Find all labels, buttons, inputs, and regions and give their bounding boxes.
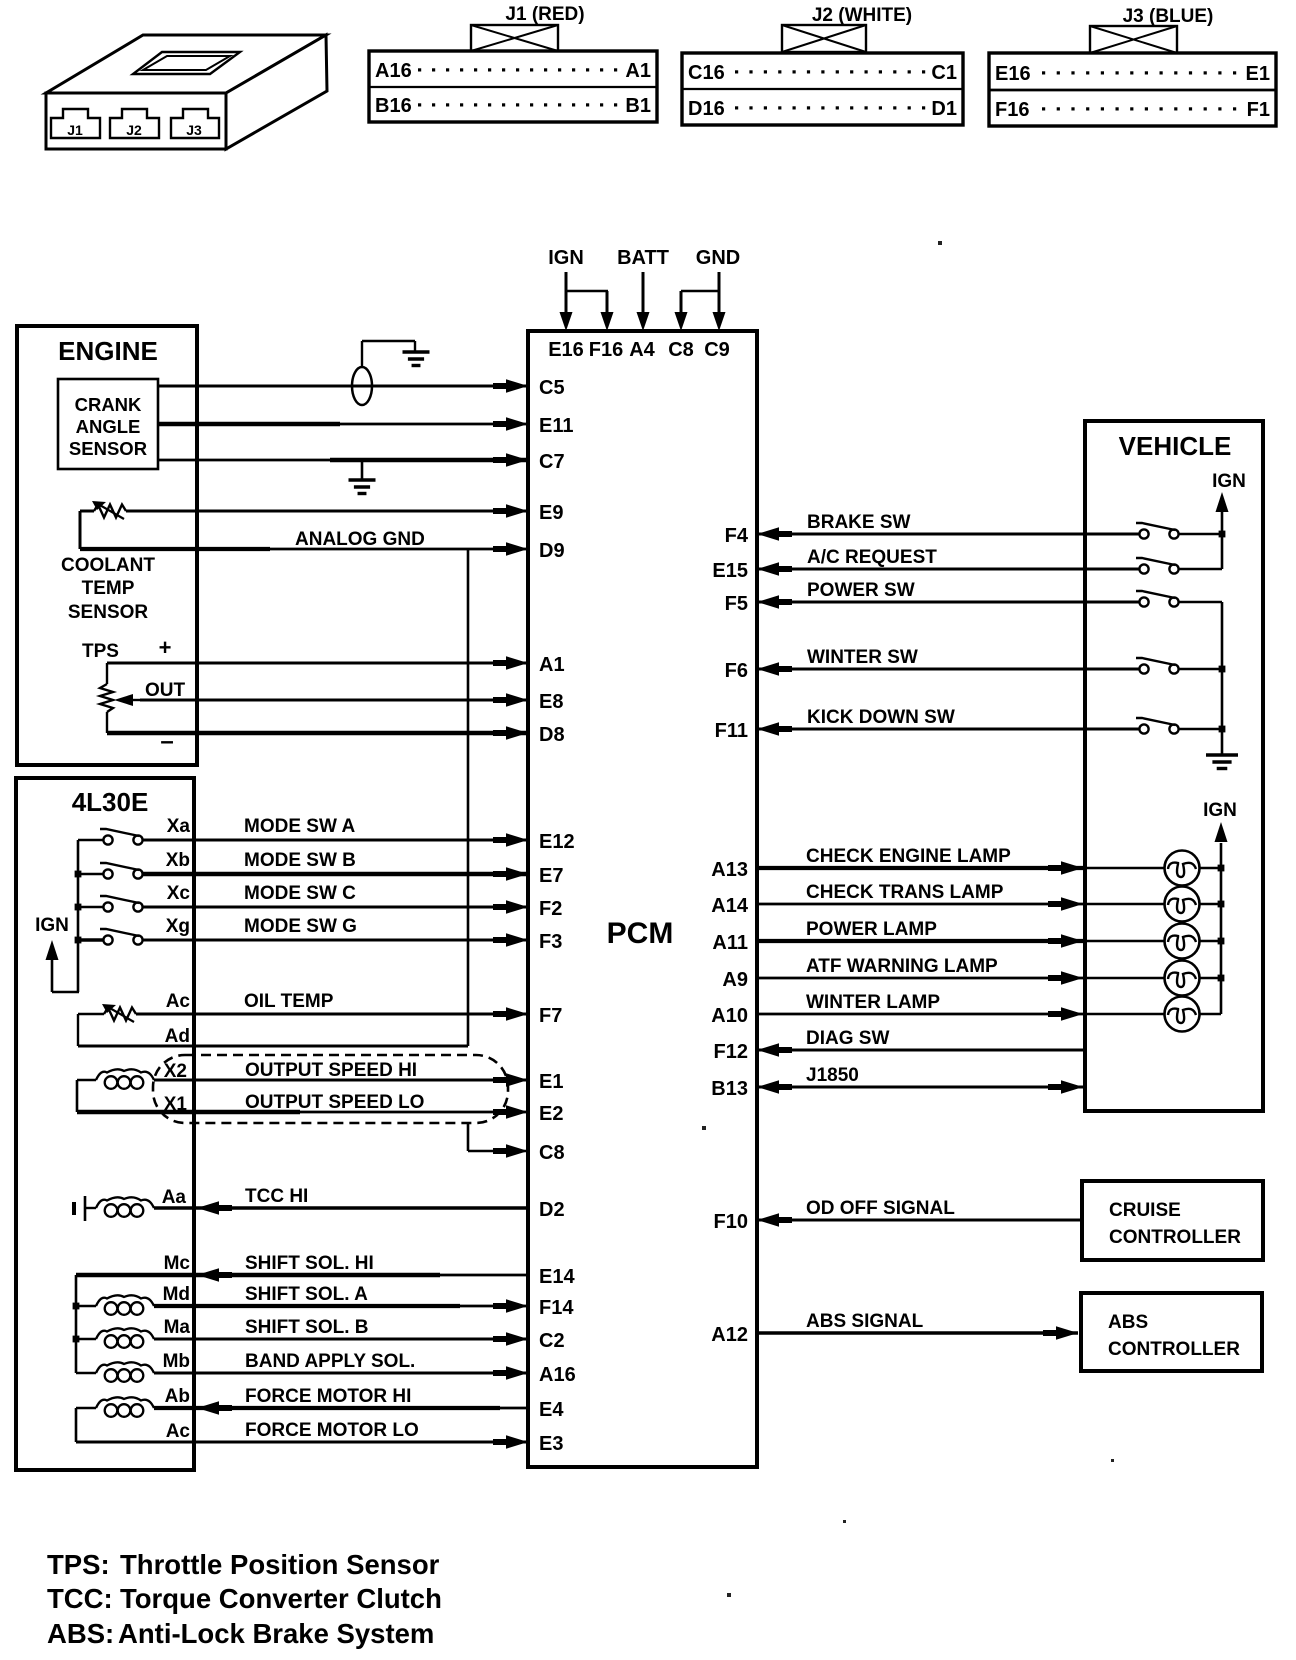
pin E8 (539, 691, 563, 713)
wire WINTER LAMP from A10 (757, 992, 1221, 1021)
svg-text:MODE SW B: MODE SW B (244, 850, 356, 871)
kick down switch (1136, 718, 1222, 734)
power switch (1136, 591, 1222, 607)
svg-text:B1: B1 (625, 95, 651, 117)
connector J3 (BLUE) pinout (989, 6, 1276, 126)
svg-text:IGN: IGN (1203, 800, 1237, 821)
svg-text:CRUISE: CRUISE (1109, 1200, 1181, 1221)
svg-text:VEHICLE: VEHICLE (1119, 431, 1232, 461)
pin C7 (539, 451, 565, 473)
IGN supply feed (548, 247, 613, 331)
svg-text:Xa: Xa (167, 816, 191, 837)
pin row E16-E1 (995, 63, 1270, 85)
svg-text:IGN: IGN (548, 247, 584, 269)
wire SHIFT SOL. HI from E14 (76, 1253, 528, 1282)
pin E7 (539, 865, 563, 887)
connector socket J3 (171, 109, 219, 138)
4L30E box (16, 778, 194, 1470)
analog ground bus (vertical) (467, 549, 470, 1046)
wire OUTPUT SPEED HI to E1 (154, 1060, 528, 1087)
svg-text:C2: C2 (539, 1330, 565, 1352)
svg-text:KICK DOWN SW: KICK DOWN SW (807, 707, 955, 728)
mode switch Xg (78, 916, 190, 945)
winter lamp (1165, 997, 1200, 1032)
mode switch Xa (78, 816, 190, 845)
PCM module case (3D view) (46, 35, 327, 149)
pin row C16-C1 (688, 62, 957, 84)
pin F14 (539, 1297, 574, 1319)
shield (dashed) around output speed pair (153, 1055, 508, 1123)
pin E3 (539, 1433, 563, 1455)
pin A1 (539, 654, 565, 676)
mode switch Xb (78, 850, 190, 879)
pin F11 (715, 720, 748, 742)
pin A13 (711, 859, 748, 881)
IGN feed (mode switches) (35, 840, 81, 992)
svg-text:A10: A10 (711, 1005, 748, 1027)
wire MODE SW G to F3 (143, 916, 528, 947)
wire SHIFT SOL. A to F14 (154, 1284, 528, 1313)
svg-text:D9: D9 (539, 540, 565, 562)
wire FORCE MOTOR LO to E3 (76, 1420, 528, 1449)
connector socket J2 (110, 109, 159, 138)
svg-text:MODE SW C: MODE SW C (244, 883, 356, 904)
svg-text:F16: F16 (995, 99, 1029, 121)
svg-text:E7: E7 (539, 865, 563, 887)
pin E16 (548, 339, 584, 361)
svg-text:WINTER LAMP: WINTER LAMP (806, 992, 940, 1013)
svg-text:E8: E8 (539, 691, 563, 713)
svg-text:Throttle Position Sensor: Throttle Position Sensor (120, 1549, 440, 1580)
svg-text:J1 (RED): J1 (RED) (505, 4, 584, 25)
svg-text:OD OFF SIGNAL: OD OFF SIGNAL (806, 1198, 955, 1219)
svg-text:A14: A14 (711, 895, 749, 917)
svg-text:OUT: OUT (145, 680, 186, 701)
svg-text:J3: J3 (186, 122, 202, 138)
svg-text:ABS SIGNAL: ABS SIGNAL (806, 1311, 924, 1332)
svg-text:F3: F3 (539, 931, 562, 953)
pin row F16-F1 (995, 99, 1270, 121)
winter switch (1136, 658, 1222, 674)
wire Ad to analog ground bus (78, 1045, 468, 1048)
svg-text:TCC HI: TCC HI (245, 1186, 308, 1207)
svg-text:CRANK: CRANK (75, 394, 142, 415)
svg-text:A4: A4 (629, 339, 655, 361)
wire coolant to E9 (126, 504, 528, 518)
legend ABS (47, 1618, 434, 1649)
wire CHECK ENGINE LAMP from A13 (757, 846, 1221, 875)
svg-text:OIL TEMP: OIL TEMP (244, 991, 334, 1012)
solenoid common bus (73, 1275, 80, 1373)
svg-text:ABS: ABS (1108, 1312, 1148, 1333)
svg-text:E3: E3 (539, 1433, 563, 1455)
svg-text:Ma: Ma (164, 1317, 191, 1338)
pin row B16-B1 (375, 95, 651, 117)
band apply solenoid coil (76, 1351, 190, 1382)
svg-text:ENGINE: ENGINE (58, 336, 158, 366)
svg-text:TCC:: TCC: (47, 1583, 113, 1614)
svg-text:A1: A1 (625, 60, 651, 82)
wire MODE SW C to F2 (143, 883, 528, 914)
pin E4 (539, 1399, 564, 1421)
legend TPS (47, 1549, 440, 1580)
wire OIL TEMP to F7 (136, 991, 528, 1021)
pin row D16-D1 (688, 98, 957, 120)
svg-text:F16: F16 (589, 339, 623, 361)
ground (shield drain) (403, 352, 430, 366)
svg-text:D1: D1 (931, 98, 957, 120)
pin F12 (714, 1041, 748, 1063)
pin F7 (539, 1005, 562, 1027)
svg-text:C9: C9 (704, 339, 730, 361)
svg-text:CHECK TRANS LAMP: CHECK TRANS LAMP (806, 882, 1004, 903)
mode switch Xc (78, 883, 190, 912)
svg-text:SHIFT SOL. B: SHIFT SOL. B (245, 1317, 369, 1338)
pin C2 (539, 1330, 565, 1352)
output speed sensor coil (77, 1061, 187, 1115)
svg-text:F2: F2 (539, 898, 562, 920)
wire OD OFF SIGNAL to F10 (757, 1198, 1082, 1227)
pin F16 (589, 339, 623, 361)
pin C5 (539, 377, 565, 399)
svg-text:E2: E2 (539, 1103, 563, 1125)
pin E1 (539, 1071, 563, 1093)
svg-text:E16: E16 (995, 63, 1031, 85)
BATT supply feed (617, 247, 669, 331)
svg-text:CONTROLLER: CONTROLLER (1109, 1227, 1241, 1248)
svg-text:OUTPUT SPEED LO: OUTPUT SPEED LO (245, 1092, 424, 1113)
svg-text:F5: F5 (725, 593, 748, 615)
svg-text:TPS: TPS (82, 641, 119, 662)
oil temp sensor (thermistor) (78, 991, 190, 1047)
svg-text:Aa: Aa (162, 1187, 187, 1208)
TPS potentiometer (82, 635, 186, 755)
svg-text:E14: E14 (539, 1266, 575, 1288)
svg-text:COOLANT: COOLANT (61, 555, 155, 576)
wire ATF WARNING LAMP from A9 (757, 956, 1221, 985)
svg-text:BAND APPLY SOL.: BAND APPLY SOL. (245, 1351, 415, 1372)
svg-text:PCM: PCM (607, 917, 674, 950)
pin row A16-A1 (375, 60, 651, 82)
wire BAND APPLY SOL. to A16 (154, 1351, 528, 1380)
pin F10 (714, 1211, 748, 1233)
svg-text:FORCE MOTOR HI: FORCE MOTOR HI (245, 1386, 411, 1407)
svg-text:J2: J2 (126, 122, 142, 138)
svg-text:D16: D16 (688, 98, 725, 120)
ground bus (switches) (1206, 602, 1238, 769)
svg-text:POWER SW: POWER SW (807, 580, 915, 601)
svg-text:MODE SW A: MODE SW A (244, 816, 355, 837)
ABS CONTROLLER box (1081, 1293, 1262, 1371)
shield drain wire to C8 (468, 1123, 528, 1158)
svg-text:E15: E15 (712, 560, 748, 582)
connector J2 (WHITE) pinout (682, 5, 963, 125)
svg-text:GND: GND (696, 247, 740, 269)
svg-text:B13: B13 (711, 1078, 748, 1100)
svg-text:+: + (159, 635, 172, 660)
wire crank to C7 (158, 453, 528, 467)
pin E11 (539, 415, 573, 437)
svg-text:TEMP: TEMP (82, 578, 135, 599)
svg-text:Mc: Mc (164, 1253, 191, 1274)
svg-text:C16: C16 (688, 62, 725, 84)
connector J1 (RED) pinout (369, 4, 657, 122)
svg-text:Ab: Ab (165, 1386, 190, 1407)
svg-text:F7: F7 (539, 1005, 562, 1027)
ENGINE box (17, 326, 197, 765)
atf warning lamp (1165, 961, 1200, 996)
pin A11 (712, 932, 748, 954)
VEHICLE box (1085, 421, 1263, 1111)
wire J1850 B13 (bidirectional) (757, 1065, 1085, 1094)
svg-text:C7: C7 (539, 451, 565, 473)
svg-text:ABS:: ABS: (47, 1618, 114, 1649)
label ANALOG GND (295, 529, 425, 550)
svg-text:WINTER SW: WINTER SW (807, 647, 918, 668)
wire CHECK TRANS LAMP from A14 (757, 882, 1221, 911)
svg-text:C8: C8 (539, 1142, 565, 1164)
pin F3 (539, 931, 562, 953)
IGN feed (vehicle switches) (1212, 471, 1246, 569)
svg-text:Xb: Xb (166, 850, 190, 871)
svg-text:F14: F14 (539, 1297, 574, 1319)
wire BRAKE SW to F4 (757, 512, 1139, 541)
svg-text:A9: A9 (722, 969, 748, 991)
svg-text:IGN: IGN (1212, 471, 1246, 492)
svg-text:Ac: Ac (166, 991, 191, 1012)
svg-text:IGN: IGN (35, 915, 69, 936)
TCC solenoid coil (74, 1187, 186, 1221)
svg-text:CONTROLLER: CONTROLLER (1108, 1339, 1240, 1360)
svg-text:FORCE MOTOR LO: FORCE MOTOR LO (245, 1420, 419, 1441)
check trans lamp (1165, 887, 1200, 922)
svg-text:E4: E4 (539, 1399, 564, 1421)
wire TPS- to D8 (107, 726, 528, 740)
pin C9 (704, 339, 730, 361)
svg-text:BRAKE SW: BRAKE SW (807, 512, 911, 533)
pin F6 (725, 660, 748, 682)
pin F5 (725, 593, 748, 615)
svg-text:Xc: Xc (167, 883, 191, 904)
svg-text:Xg: Xg (166, 916, 190, 937)
shift solenoid A coil (76, 1284, 190, 1315)
svg-text:C5: C5 (539, 377, 565, 399)
pin F2 (539, 898, 562, 920)
svg-text:B16: B16 (375, 95, 412, 117)
svg-text:F4: F4 (725, 525, 749, 547)
svg-text:D8: D8 (539, 724, 565, 746)
svg-text:SENSOR: SENSOR (68, 602, 149, 623)
pin A14 (711, 895, 749, 917)
svg-text:ANGLE: ANGLE (76, 416, 141, 437)
pin A9 (722, 969, 748, 991)
svg-text:E1: E1 (1246, 63, 1270, 85)
pin D8 (539, 724, 565, 746)
svg-text:C1: C1 (931, 62, 957, 84)
PCM label (607, 917, 674, 950)
svg-text:E16: E16 (548, 339, 584, 361)
ground on C7 wire (349, 460, 376, 494)
svg-text:F12: F12 (714, 1041, 748, 1063)
shield loop on C5 wire (352, 341, 415, 405)
wire TPS OUT to E8 (140, 693, 528, 707)
svg-text:F11: F11 (715, 720, 748, 742)
svg-text:A/C REQUEST: A/C REQUEST (807, 547, 937, 568)
svg-text:MODE SW G: MODE SW G (244, 916, 357, 937)
scan specks (noise) (702, 241, 1114, 1597)
pin A12 (711, 1324, 748, 1346)
a/c request switch (1136, 558, 1222, 574)
pin C8 (top) (668, 339, 694, 361)
pin E2 (539, 1103, 563, 1125)
svg-text:4L30E: 4L30E (72, 787, 149, 817)
svg-text:F10: F10 (714, 1211, 748, 1233)
shift solenoid B coil (76, 1317, 190, 1348)
wire KICK DOWN SW to F11 (757, 707, 1139, 736)
wire MODE SW A to E12 (143, 816, 528, 847)
pin E12 (539, 831, 575, 853)
svg-text:Torque Converter Clutch: Torque Converter Clutch (120, 1583, 442, 1614)
svg-text:Md: Md (163, 1284, 190, 1305)
pin B13 (711, 1078, 748, 1100)
pin F4 (725, 525, 749, 547)
wire POWER LAMP from A11 (757, 919, 1221, 948)
check engine lamp (1165, 851, 1200, 886)
wire SHIFT SOL. B to C2 (154, 1317, 528, 1346)
svg-text:POWER LAMP: POWER LAMP (806, 919, 937, 940)
coolant temp sensor (thermistor) (61, 501, 155, 623)
svg-text:SHIFT SOL. HI: SHIFT SOL. HI (245, 1253, 374, 1274)
wire A/C REQUEST to E15 (757, 547, 1139, 576)
svg-text:ATF WARNING LAMP: ATF WARNING LAMP (806, 956, 998, 977)
pin E9 (539, 502, 563, 524)
svg-text:Mb: Mb (163, 1351, 190, 1372)
wire crank to C5 (158, 379, 528, 393)
svg-text:J3 (BLUE): J3 (BLUE) (1123, 6, 1214, 27)
svg-text:A16: A16 (539, 1364, 576, 1386)
crank angle sensor (58, 379, 158, 469)
svg-text:SENSOR: SENSOR (69, 438, 147, 459)
svg-text:F1: F1 (1247, 99, 1270, 121)
svg-text:BATT: BATT (617, 247, 669, 269)
svg-text:E9: E9 (539, 502, 563, 524)
svg-text:D2: D2 (539, 1199, 565, 1221)
svg-text:E1: E1 (539, 1071, 563, 1093)
GND supply feed (675, 247, 741, 331)
wire TCC HI from D2 (154, 1186, 528, 1215)
svg-text:J1: J1 (67, 122, 83, 138)
svg-text:J1850: J1850 (806, 1065, 859, 1086)
brake switch (1136, 523, 1222, 539)
svg-text:E12: E12 (539, 831, 575, 853)
connector socket J1 (51, 109, 100, 138)
svg-text:SHIFT SOL. A: SHIFT SOL. A (245, 1284, 368, 1305)
pin A10 (711, 1005, 748, 1027)
svg-text:A12: A12 (711, 1324, 748, 1346)
wire DIAG SW to F12 (757, 1028, 1085, 1057)
svg-text:DIAG SW: DIAG SW (806, 1028, 889, 1049)
pin C8 (539, 1142, 565, 1164)
pin A16 (539, 1364, 576, 1386)
wire TPS+ to A1 (107, 656, 528, 670)
force motor coil (76, 1386, 190, 1442)
svg-text:Ad: Ad (165, 1026, 190, 1047)
wire POWER SW to F5 (757, 580, 1139, 609)
svg-text:E11: E11 (539, 415, 573, 437)
wire FORCE MOTOR HI from E4 (154, 1386, 528, 1415)
wire MODE SW B to E7 (143, 850, 528, 881)
wire crank to E11 (158, 417, 528, 431)
pin E14 (539, 1266, 575, 1288)
svg-text:F6: F6 (725, 660, 748, 682)
svg-text:Ac: Ac (166, 1421, 191, 1442)
svg-text:TPS:: TPS: (47, 1549, 110, 1580)
svg-text:Anti-Lock Brake System: Anti-Lock Brake System (118, 1618, 434, 1649)
CRUISE CONTROLLER box (1082, 1181, 1263, 1260)
IGN feed (lamps) (1203, 800, 1237, 1014)
wire ABS SIGNAL from A12 (757, 1311, 1078, 1340)
pin D9 (539, 540, 565, 562)
legend TCC (47, 1583, 442, 1614)
pin A4 (629, 339, 655, 361)
wire ANALOG GND to D9 (80, 542, 528, 556)
PCM box (528, 331, 757, 1467)
wire WINTER SW to F6 (757, 647, 1139, 676)
pin D2 (539, 1199, 565, 1221)
svg-text:J2 (WHITE): J2 (WHITE) (812, 5, 912, 26)
svg-text:A1: A1 (539, 654, 565, 676)
svg-text:OUTPUT SPEED HI: OUTPUT SPEED HI (245, 1060, 417, 1081)
svg-text:C8: C8 (668, 339, 694, 361)
svg-text:A11: A11 (712, 932, 748, 954)
wire OUTPUT SPEED LO to E2 (77, 1092, 528, 1119)
svg-text:A13: A13 (711, 859, 748, 881)
svg-text:A16: A16 (375, 60, 412, 82)
pin E15 (712, 560, 748, 582)
svg-text:CHECK ENGINE LAMP: CHECK ENGINE LAMP (806, 846, 1011, 867)
power lamp (1165, 924, 1200, 959)
svg-text:ANALOG GND: ANALOG GND (295, 529, 425, 550)
